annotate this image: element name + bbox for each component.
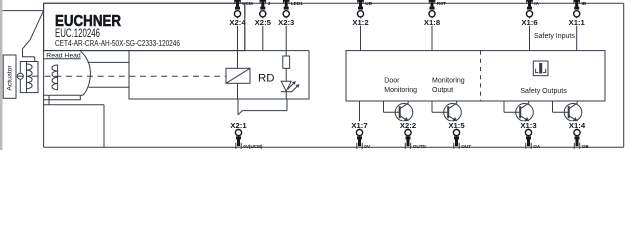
right electronics block — [346, 51, 605, 101]
transponder coil L1 — [27, 62, 33, 93]
chamfer junction — [238, 111, 242, 115]
svg-text:X1:4: X1:4 — [569, 121, 585, 130]
terminal X2:2 (OUTD) — [399, 121, 426, 149]
LED1 anode wire — [285, 68, 287, 81]
resistor R1 — [283, 56, 290, 68]
svg-text:OA: OA — [533, 144, 541, 149]
wire X1:1 — [576, 17, 578, 50]
terminal X1:8 (RST) — [423, 0, 446, 27]
terminal X1:3 (OA) — [520, 121, 541, 149]
svg-text:CET4-AR-CRA-AH-50X-SG-C2333-12: CET4-AR-CRA-AH-50X-SG-C2333-120246 — [55, 39, 180, 48]
terminal X2:4 (UCM) — [229, 0, 253, 27]
terminal X1:4 (OB) — [568, 121, 589, 149]
svg-text:Safety Outputs: Safety Outputs — [520, 88, 567, 95]
wire junction to LED return — [242, 110, 287, 112]
wire X1:2 — [360, 17, 362, 50]
safe output IC icon — [533, 61, 548, 76]
left border — [43, 3, 45, 147]
svg-text:X1:8: X1:8 — [424, 18, 440, 27]
svg-text:0V(UCM): 0V(UCM) — [243, 144, 263, 149]
terminal X2:1 (0V(UCM)) — [230, 121, 263, 149]
terminal X1:2 (UB) — [352, 0, 373, 27]
terminal X1:7 (0V) — [351, 121, 371, 149]
title block box — [44, 3, 245, 50]
svg-text:OUT: OUT — [461, 144, 471, 149]
wire block bottom to X2:1 node — [237, 99, 239, 115]
svg-text:UB: UB — [365, 1, 372, 6]
left electronics block — [129, 51, 309, 99]
terminal X2:3 (LED1) — [277, 0, 303, 27]
terminal X2:5 (J) — [254, 0, 272, 27]
top-left partial border line — [2, 10, 43, 12]
terminal X1:1 (IB) — [568, 0, 587, 27]
actuator box — [3, 55, 16, 98]
read head top edge — [44, 58, 81, 60]
svg-text:X2:5: X2:5 — [255, 18, 271, 27]
transponder circuit loop — [20, 62, 38, 93]
bottom border — [44, 146, 624, 148]
svg-text:Monitoring: Monitoring — [384, 87, 417, 94]
svg-text:IB: IB — [582, 1, 587, 6]
dashed separator — [480, 51, 482, 101]
read head coil L2 — [52, 65, 58, 90]
svg-text:X1:2: X1:2 — [352, 18, 368, 27]
svg-text:X2:2: X2:2 — [400, 121, 416, 130]
wire X1:8 — [431, 17, 433, 50]
transistor Q2 — [432, 101, 461, 129]
wire X2:5 — [262, 17, 264, 50]
wire coupling box to block bottom — [237, 83, 239, 99]
terminal X1:6 (IA) — [521, 0, 540, 27]
svg-text:X1:5: X1:5 — [448, 121, 464, 130]
svg-text:UCM: UCM — [242, 1, 253, 6]
read head drop wire — [48, 95, 50, 105]
svg-text:Monitoring: Monitoring — [432, 78, 465, 85]
wire X1:7 — [359, 101, 361, 129]
svg-text:0V: 0V — [364, 144, 371, 149]
transistor Q1 — [384, 101, 413, 129]
page edge gray sliver — [0, 0, 2, 150]
inductive coupling dashed line — [45, 75, 226, 77]
LED1 cathode wire — [285, 92, 287, 99]
svg-text:X2:1: X2:1 — [230, 121, 246, 130]
svg-text:X2:4: X2:4 — [229, 18, 245, 27]
block top shared line (title box bottom + left block top) — [44, 50, 309, 52]
svg-text:X1:3: X1:3 — [520, 121, 536, 130]
svg-text:Door: Door — [384, 78, 400, 85]
svg-text:X1:6: X1:6 — [521, 18, 537, 27]
transistor Q4 — [553, 101, 582, 129]
cable channel top line — [88, 61, 129, 63]
head mount funnel outline — [23, 11, 44, 62]
terminal X1:5 (OUT) — [448, 121, 472, 149]
title box right edge redraw — [244, 3, 246, 50]
read head bottom edge — [44, 94, 83, 96]
svg-text:Safety Inputs: Safety Inputs — [534, 33, 575, 40]
svg-text:X1:1: X1:1 — [569, 18, 585, 27]
transponder tank tick — [32, 75, 38, 77]
mount foot outline — [44, 95, 81, 99]
mount step vertical — [103, 105, 105, 147]
svg-text:X1:7: X1:7 — [351, 121, 367, 130]
RFID coupling box diagonal — [226, 68, 250, 83]
svg-text:OUTD: OUTD — [413, 144, 427, 149]
transponder chip symbol — [17, 73, 23, 79]
svg-text:J: J — [268, 1, 271, 6]
LED1 emission arrows — [288, 84, 294, 90]
cable channel bottom line — [89, 86, 129, 88]
LED return riser — [286, 99, 288, 111]
read head right arc — [81, 51, 91, 95]
top border — [44, 2, 624, 4]
svg-text:Actuator: Actuator — [7, 65, 14, 91]
svg-text:OB: OB — [582, 144, 590, 149]
svg-text:RD: RD — [258, 73, 275, 85]
svg-text:RST: RST — [437, 1, 446, 6]
svg-text:LED1: LED1 — [291, 1, 303, 6]
svg-text:IA: IA — [534, 1, 539, 6]
LED1 diode — [281, 81, 291, 91]
svg-text:Output: Output — [432, 87, 453, 94]
svg-text:X2:3: X2:3 — [278, 18, 294, 27]
transistor Q3 — [504, 101, 533, 129]
wire X1:6 — [529, 17, 531, 50]
right border — [623, 3, 625, 147]
wire X2:3 to resistor — [285, 17, 287, 56]
wire X2:4 to coupling box — [237, 17, 239, 68]
mount step horizontal — [44, 104, 104, 106]
RFID coupling box — [226, 68, 250, 83]
